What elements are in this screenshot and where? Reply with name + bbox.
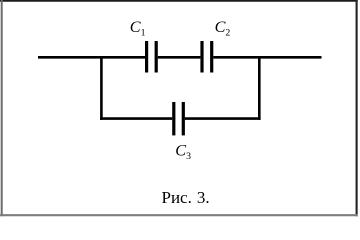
svg-text:Рис.3.: Рис.3. xyxy=(162,188,210,207)
svg-text:C1: C1 xyxy=(130,18,146,39)
svg-text:C3: C3 xyxy=(175,141,191,162)
border frame (decorative) xyxy=(0,0,358,2)
capacitor C2 xyxy=(202,41,212,73)
wire: left lead of top branch xyxy=(38,56,145,59)
capacitor C1 xyxy=(147,41,157,73)
wire: right lead of top branch xyxy=(213,56,321,59)
wire: bottom branch right segment xyxy=(185,117,261,120)
wire: right vertical branch xyxy=(258,56,261,120)
capacitor C3 xyxy=(174,102,184,135)
svg-text:C2: C2 xyxy=(215,18,231,39)
wire: between C1 and C2 xyxy=(158,56,201,59)
wire: bottom branch left segment xyxy=(100,117,172,120)
wire: left vertical branch xyxy=(100,56,103,120)
